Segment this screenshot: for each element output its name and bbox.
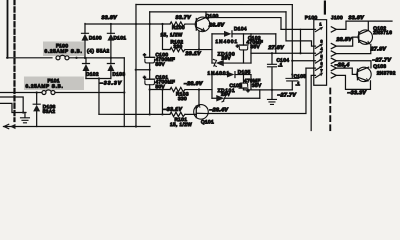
wire: top loop outer — [136, 4, 292, 6]
wire: 27.8V node drop — [275, 34, 277, 53]
zener ZD101 — [216, 95, 224, 101]
svg-text:+: + — [143, 75, 146, 80]
zener ZD100 — [216, 60, 224, 66]
svg-text:29.1V: 29.1V — [184, 51, 201, 57]
node dot C105 upper — [291, 73, 293, 75]
connector mating dashed line — [324, 0, 326, 14]
J100 pin 6 arrow — [331, 65, 336, 70]
fuse F101 highlight box — [24, 77, 84, 91]
svg-text:33.7V: 33.7V — [175, 15, 191, 21]
svg-text:6.25AMP S.B.: 6.25AMP S.B. — [44, 49, 82, 54]
svg-text:6.25AMP S.B.: 6.25AMP S.B. — [25, 84, 63, 89]
node dot C104 tap — [271, 52, 273, 54]
svg-text:D102: D102 — [86, 72, 99, 77]
svg-text:–28.9V: –28.9V — [184, 81, 203, 87]
transistor Q103 — [357, 64, 396, 82]
svg-text:28V: 28V — [221, 55, 231, 60]
connector pin 4 — [315, 47, 323, 55]
wire: Q100 collector stub — [205, 12, 207, 18]
wire: collector feed line y=11.8 — [150, 11, 286, 13]
connector pin 5 — [315, 55, 323, 63]
capacitor C104 — [267, 53, 289, 90]
svg-text:7: 7 — [320, 69, 322, 73]
wire: pin1 horizontal — [281, 28, 316, 30]
transistor Q100 — [195, 13, 218, 31]
svg-text:F100: F100 — [56, 43, 68, 48]
svg-text:P100: P100 — [305, 15, 318, 20]
J100 pin 5 arrow — [331, 58, 336, 63]
box 1 right side — [250, 34, 252, 63]
svg-text:Q103: Q103 — [373, 64, 386, 69]
wire: pin7 feed — [311, 75, 315, 131]
wire: Q100 collector line to pin1 — [206, 18, 281, 30]
box 2 bottom with zener ZD101 — [212, 97, 216, 99]
svg-text:53A2: 53A2 — [43, 109, 56, 114]
transistor Q101 — [194, 105, 214, 125]
svg-text:D103: D103 — [112, 72, 125, 77]
svg-text:28.5V: 28.5V — [335, 37, 352, 43]
node: bridge minus rail — [86, 78, 111, 80]
svg-text:50V: 50V — [155, 62, 165, 67]
wire: AC2 jog to bridge — [123, 58, 125, 127]
wire: Q102 collector stub — [367, 21, 369, 30]
wire: collector feed drop to rail — [149, 12, 151, 24]
svg-text:C105: C105 — [294, 74, 307, 79]
svg-text:J100: J100 — [331, 15, 343, 20]
svg-text:.1: .1 — [295, 81, 300, 86]
wire: J7 to Q103 emitter — [336, 75, 370, 89]
node dot ground join — [22, 111, 24, 113]
wire: pin1 to pin4 branch — [299, 29, 301, 53]
wire: top loop to pin1 — [291, 5, 293, 61]
svg-text:–33.3V: –33.3V — [100, 81, 122, 87]
wire: left stub upper — [0, 97, 23, 113]
capacitor C101 — [143, 70, 175, 115]
svg-text:–28,4: –28,4 — [335, 62, 350, 68]
svg-text:33.8V: 33.8V — [348, 15, 364, 21]
wire: J4 to Q102 emitter — [336, 44, 370, 53]
svg-text:+: + — [247, 88, 250, 93]
svg-text:2N3716: 2N3716 — [373, 30, 392, 35]
wire: Q101 to connector pin6 — [208, 68, 306, 113]
resistor R102 — [162, 24, 199, 52]
wire: pin4 feed line — [251, 52, 315, 54]
capacitor C105 — [286, 61, 306, 90]
svg-text:+: + — [236, 44, 239, 49]
diode D104 — [224, 31, 232, 37]
wire: R103 node into box 2 — [199, 89, 212, 91]
fuse F100 — [44, 43, 124, 60]
wire: dashed boundary line left — [13, 0, 15, 121]
node dot emitter/R102 — [198, 48, 200, 50]
wire: left outer loop vertical — [135, 5, 137, 127]
node dot F101 wire — [36, 91, 38, 93]
svg-text:28V: 28V — [221, 92, 231, 97]
wire: pin3 jog — [286, 12, 316, 46]
diode D105 — [227, 72, 235, 78]
fuse F101 — [0, 78, 124, 94]
wire: left AC input vertical — [6, 0, 8, 58]
node dot AC2 jog — [123, 91, 125, 93]
wire: J1 to Q102 collector — [336, 21, 392, 29]
svg-text:1N4001: 1N4001 — [215, 39, 238, 44]
svg-text:28.5V: 28.5V — [208, 22, 225, 28]
svg-text:6: 6 — [320, 62, 322, 66]
connector pin 7 — [315, 69, 323, 77]
J100 pin 7 arrow — [331, 73, 336, 78]
svg-text:+: + — [143, 52, 146, 57]
wire: bottom common with arrows — [3, 126, 149, 128]
ground symbol left — [20, 113, 29, 123]
svg-text:27.8V: 27.8V — [370, 46, 387, 52]
svg-text:1N4001: 1N4001 — [207, 71, 230, 76]
svg-text:1: 1 — [319, 22, 321, 26]
svg-text:(4) 55A2: (4) 55A2 — [87, 48, 110, 53]
J100 pin 3 arrow — [331, 43, 336, 48]
capacitor C102 — [236, 34, 263, 63]
svg-text:4: 4 — [320, 47, 322, 51]
wire: minus rail down — [98, 79, 100, 115]
wire: into regulator box 1 — [199, 49, 212, 51]
box 1 bottom with zener ZD100 — [212, 62, 214, 64]
wire: Q100 emitter down — [198, 31, 200, 50]
svg-text:330: 330 — [178, 96, 187, 101]
svg-text:D100: D100 — [89, 35, 102, 40]
svg-text:.1: .1 — [278, 62, 283, 67]
box 2 left side — [211, 75, 213, 99]
wire: left stub lower — [0, 103, 26, 112]
connector pin 1 — [315, 22, 323, 31]
svg-text:3: 3 — [320, 40, 322, 44]
wire: J5 to Q103 collector — [336, 61, 371, 68]
svg-text:C103: C103 — [229, 83, 242, 88]
wire: R103 tap down — [161, 90, 163, 115]
svg-text:33.8V: 33.8V — [101, 15, 117, 21]
node dot pin1 branch — [299, 52, 301, 54]
svg-text:F101: F101 — [47, 78, 59, 83]
wire: J6 to Q103 base — [336, 68, 357, 74]
wire: pin5 horizontal — [292, 60, 315, 62]
diode D101 — [107, 24, 126, 58]
svg-text:27.8V: 27.8V — [267, 45, 284, 51]
arrowhead bottom 2 — [10, 124, 16, 129]
regulator box 2: top wire with D105 — [212, 74, 227, 76]
svg-text:15, 1/2W: 15, 1/2W — [170, 122, 192, 127]
svg-text:–28.4V: –28.4V — [209, 107, 228, 113]
capacitor C100 — [143, 24, 175, 70]
wire: J3 to Q102 base — [336, 37, 358, 46]
node dot after fuse F100 — [75, 57, 77, 59]
svg-text:2N3792: 2N3792 — [377, 70, 396, 75]
wire: pin6 horizontal — [306, 67, 316, 69]
node dot pin5/C105 — [291, 60, 293, 62]
svg-text:D104: D104 — [234, 26, 247, 31]
J100 pin 1 arrow — [331, 27, 336, 32]
svg-text:330: 330 — [173, 44, 182, 49]
node dot AC1-D101 — [110, 57, 112, 59]
node dot AC1-D100 — [84, 57, 86, 59]
box 1 left side — [211, 34, 213, 63]
svg-text:–33.1V: –33.1V — [163, 107, 182, 113]
wire: Q101 emitter up — [198, 90, 200, 105]
svg-text:35V: 35V — [252, 83, 262, 88]
connector P100 box — [314, 20, 327, 86]
wire: capacitor midpoint tie — [136, 69, 150, 71]
node dots on rail — [110, 23, 112, 25]
box 2 right side — [250, 75, 252, 90]
connector pin 3 — [315, 40, 323, 49]
wire: ground bus y 89.8 — [243, 89, 292, 91]
svg-text:50V: 50V — [155, 84, 165, 89]
wire: negative base rail — [99, 113, 170, 115]
ground symbol C104 — [267, 89, 276, 105]
svg-text:–33.3V: –33.3V — [347, 90, 366, 96]
wire: +33.8V rail — [85, 23, 170, 25]
connector pin 6 — [315, 62, 323, 70]
regulator box 1: top wire with D104 — [212, 33, 224, 35]
arrowhead bottom 1 — [4, 124, 9, 129]
svg-text:D101: D101 — [113, 35, 126, 40]
svg-text:Q101: Q101 — [201, 119, 214, 124]
diode D103 — [107, 58, 125, 79]
node dot bridge minus — [98, 77, 100, 79]
svg-text:15, 1/2W: 15, 1/2W — [160, 32, 182, 37]
svg-text:35V: 35V — [250, 44, 260, 49]
diode D108 — [33, 93, 55, 127]
svg-text:–27.7V: –27.7V — [372, 57, 391, 63]
resistor R101 — [170, 112, 185, 116]
capacitor C103 — [229, 75, 262, 94]
transistor Q102 — [358, 26, 392, 45]
svg-text:D105: D105 — [238, 69, 251, 74]
J100 pin 4 arrow — [331, 51, 336, 56]
svg-text:5: 5 — [320, 55, 322, 59]
node dot bottom left loop — [135, 125, 137, 127]
diode D100 — [81, 24, 101, 58]
fuse F100 highlight box — [43, 42, 84, 57]
resistor R100 — [170, 22, 185, 26]
diode D102 — [82, 58, 98, 79]
svg-text:R100: R100 — [172, 25, 185, 30]
svg-text:–27.7V: –27.7V — [277, 92, 296, 98]
resistor R103 — [150, 87, 199, 101]
